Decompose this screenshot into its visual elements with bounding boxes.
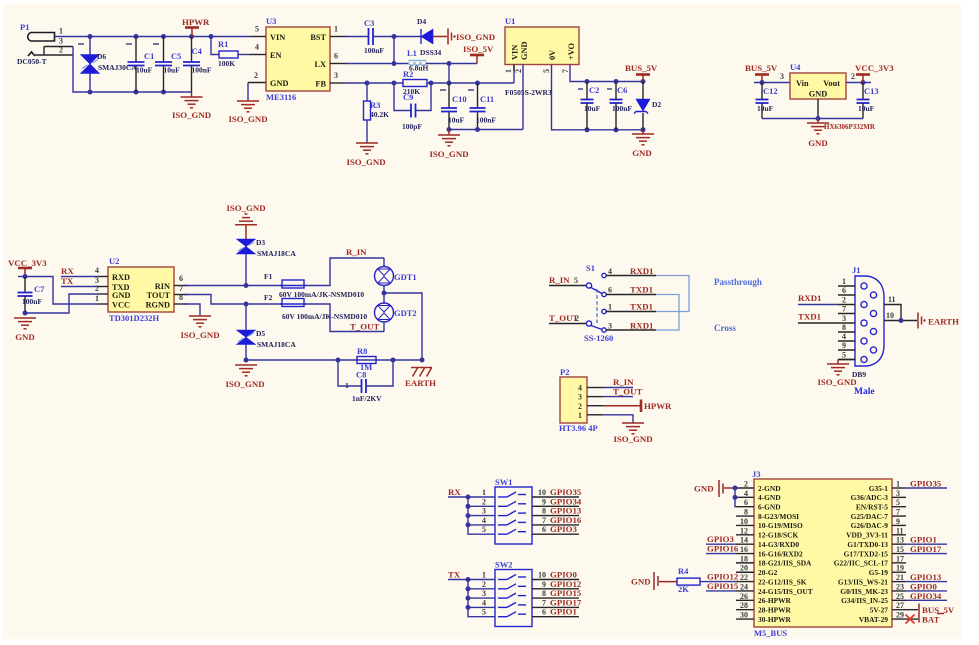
svg-text:6: 6 bbox=[842, 286, 846, 295]
pin 9 J3 bbox=[892, 517, 906, 526]
svg-text:T_OUT: T_OUT bbox=[613, 387, 642, 397]
wire EARTH row bbox=[246, 359, 422, 361]
svg-text:5: 5 bbox=[842, 351, 846, 360]
svg-text:F0505S-2WR3: F0505S-2WR3 bbox=[505, 88, 552, 97]
pin 10 J1 bbox=[884, 311, 917, 323]
svg-text:M5_BUS: M5_BUS bbox=[754, 628, 787, 638]
svg-text:VCC_3V3: VCC_3V3 bbox=[8, 258, 47, 268]
net GPIO3 pin14 bbox=[706, 534, 736, 544]
pin 4 SW1 bbox=[468, 524, 495, 526]
svg-text:C8: C8 bbox=[356, 370, 366, 380]
svg-text:HPWR: HPWR bbox=[644, 401, 672, 411]
svg-text:ISO_GND: ISO_GND bbox=[817, 377, 856, 387]
svg-text:9: 9 bbox=[542, 497, 546, 506]
ground ISO_GND under C4 bbox=[172, 92, 211, 120]
svg-text:24: 24 bbox=[740, 582, 748, 591]
capacitor C5 10uF bbox=[153, 37, 181, 93]
op-amp U1 F0505S-2WR3 DC-DC bbox=[505, 16, 579, 97]
svg-text:100nF: 100nF bbox=[476, 116, 496, 125]
svg-text:12: 12 bbox=[740, 526, 748, 535]
svg-text:2: 2 bbox=[95, 284, 99, 293]
pin 18 J3 bbox=[736, 562, 754, 564]
connector P2 HT3.96 4P bbox=[559, 367, 598, 433]
svg-text:EN: EN bbox=[270, 51, 282, 60]
capacitor C9 100pF bbox=[394, 83, 431, 131]
svg-text:7: 7 bbox=[179, 284, 183, 293]
svg-text:6: 6 bbox=[179, 274, 183, 283]
svg-text:D5: D5 bbox=[256, 329, 265, 338]
svg-text:T_OUT: T_OUT bbox=[350, 322, 379, 332]
op-amp U2 TD301D232H transceiver bbox=[108, 256, 174, 323]
svg-text:C10: C10 bbox=[452, 94, 467, 104]
svg-text:10: 10 bbox=[886, 311, 894, 320]
svg-text:RX: RX bbox=[448, 487, 461, 497]
pin 27 J3 bbox=[892, 601, 918, 610]
capacitor C12 10uF bbox=[756, 83, 778, 119]
resistor R8 1M bbox=[357, 346, 376, 372]
svg-text:C1: C1 bbox=[144, 51, 154, 61]
svg-text:VIN: VIN bbox=[511, 45, 520, 60]
gas discharge tube GDT1 bbox=[375, 258, 417, 293]
svg-text:4: 4 bbox=[95, 266, 99, 275]
svg-text:RGND: RGND bbox=[146, 301, 170, 310]
capacitor C7 100nF bbox=[18, 277, 46, 314]
pin 3 T_OUT bbox=[587, 387, 642, 397]
pin 9 SW1 net GPIO34 bbox=[532, 496, 582, 506]
svg-text:8: 8 bbox=[542, 589, 546, 598]
svg-text:U3: U3 bbox=[266, 16, 276, 26]
svg-text:G35-1: G35-1 bbox=[869, 484, 889, 493]
wire SW2 left bus bbox=[468, 580, 495, 617]
svg-text:Cross: Cross bbox=[714, 323, 736, 333]
pin 8 SW1 net GPIO13 bbox=[532, 506, 582, 516]
svg-text:Vin: Vin bbox=[796, 79, 809, 88]
svg-text:6: 6 bbox=[542, 608, 546, 617]
svg-text:8: 8 bbox=[842, 323, 846, 332]
svg-text:TXD1: TXD1 bbox=[630, 285, 653, 295]
svg-text:6: 6 bbox=[542, 525, 546, 534]
svg-text:30: 30 bbox=[740, 611, 748, 620]
svg-text:U4: U4 bbox=[790, 62, 801, 72]
pin 9 J1 bbox=[838, 349, 855, 351]
ground GND under U4 bbox=[807, 119, 876, 149]
power port EARTH at J1 bbox=[918, 313, 959, 329]
svg-text:60V 100mA/JK-NSMD010: 60V 100mA/JK-NSMD010 bbox=[279, 290, 364, 299]
svg-text:2-GND: 2-GND bbox=[758, 484, 781, 493]
svg-text:8: 8 bbox=[179, 293, 183, 302]
node RXD1 pin4 bbox=[606, 266, 656, 276]
node TXD1 pin6 bbox=[606, 285, 656, 295]
svg-text:2K: 2K bbox=[678, 584, 689, 594]
wire D4 to ISO_GND port bbox=[433, 36, 447, 38]
net GPIO12 pin22 bbox=[706, 572, 739, 582]
svg-text:5: 5 bbox=[482, 525, 486, 534]
pin 3 J3 bbox=[892, 489, 906, 498]
svg-text:26: 26 bbox=[740, 592, 748, 601]
pin 2 GND bbox=[98, 293, 108, 295]
pin 1 VCC bbox=[98, 303, 108, 305]
svg-text:EARTH: EARTH bbox=[405, 378, 436, 388]
wire U4 bottom bus bbox=[762, 118, 863, 120]
svg-text:13: 13 bbox=[896, 536, 904, 545]
svg-text:3: 3 bbox=[59, 37, 63, 46]
wire C3 to D4 bbox=[373, 36, 421, 38]
power ISO_5V bbox=[463, 44, 494, 64]
capacitor C6 100nF bbox=[607, 82, 632, 130]
capacitor C3 100nF bbox=[364, 18, 384, 55]
wire VCC_3V3 to VCC pin bbox=[18, 276, 25, 278]
svg-text:10uF: 10uF bbox=[136, 66, 153, 75]
svg-text:TD301D232H: TD301D232H bbox=[109, 313, 159, 323]
svg-text:VDD_3V3-11: VDD_3V3-11 bbox=[846, 531, 888, 540]
svg-text:SW2: SW2 bbox=[495, 560, 512, 570]
svg-text:BUS_5V: BUS_5V bbox=[625, 63, 658, 73]
pin 30 J3 bbox=[736, 618, 754, 620]
pin 3 TXD bbox=[98, 286, 108, 288]
svg-text:15: 15 bbox=[896, 545, 904, 554]
svg-text:SMAJ30CA: SMAJ30CA bbox=[98, 63, 137, 72]
svg-text:J1: J1 bbox=[852, 265, 861, 275]
svg-text:G17/TXD2-15: G17/TXD2-15 bbox=[844, 549, 889, 558]
svg-text:100nF: 100nF bbox=[364, 46, 384, 55]
svg-text:GDT2: GDT2 bbox=[394, 308, 417, 318]
power port GND at R4 bbox=[631, 572, 677, 590]
svg-text:G22/IIC_SCL-17: G22/IIC_SCL-17 bbox=[834, 559, 889, 568]
svg-text:2: 2 bbox=[842, 296, 846, 305]
ground ISO_GND under J1 bbox=[817, 364, 856, 387]
svg-text:GND: GND bbox=[270, 79, 288, 88]
pin 7 J1 bbox=[838, 313, 855, 315]
power VCC_3V3 bbox=[855, 63, 894, 83]
pin 28 J3 bbox=[736, 609, 754, 611]
pin 4 J3 bbox=[736, 496, 754, 498]
ground ISO_GND under U2 bbox=[180, 316, 219, 340]
svg-text:C3: C3 bbox=[364, 18, 374, 28]
wire J3 GND pins 2/4/6 bbox=[735, 488, 736, 507]
svg-text:R_IN: R_IN bbox=[346, 247, 367, 257]
pin 15 J3 bbox=[892, 544, 947, 554]
power VCC_3V3 at U2 bbox=[8, 258, 47, 277]
wire TOUT jog bbox=[184, 295, 282, 305]
svg-text:1: 1 bbox=[578, 411, 582, 420]
svg-text:SMAJ18CA: SMAJ18CA bbox=[257, 249, 296, 258]
pin 21 J3 bbox=[892, 572, 947, 582]
pin 19 J3 bbox=[892, 564, 906, 573]
capacitor C2 10uF bbox=[578, 82, 601, 130]
svg-text:1: 1 bbox=[504, 69, 513, 73]
pin 1 VIN U1 bbox=[513, 65, 515, 72]
pin 7 +VO U1 bbox=[570, 65, 643, 82]
net TX bbox=[61, 276, 98, 287]
svg-text:VCC_3V3: VCC_3V3 bbox=[855, 63, 894, 73]
fuse F2 bbox=[264, 293, 367, 321]
svg-text:ISO_GND: ISO_GND bbox=[456, 32, 495, 42]
pin 8 J1 bbox=[838, 331, 855, 333]
junction dots bottom bus bbox=[88, 90, 93, 95]
pin 3 J1 bbox=[838, 322, 855, 324]
ground ISO_GND under C10 bbox=[429, 130, 468, 160]
svg-text:4-GND: 4-GND bbox=[758, 493, 781, 502]
svg-text:R2: R2 bbox=[403, 69, 413, 79]
svg-text:14-G3/RXD0: 14-G3/RXD0 bbox=[758, 540, 799, 549]
pin 10 SW1 net GPIO35 bbox=[532, 487, 582, 497]
svg-text:C9: C9 bbox=[403, 92, 413, 102]
pin 1 J3 bbox=[892, 479, 947, 489]
pin 3 SW1 bbox=[468, 515, 495, 517]
svg-text:1: 1 bbox=[842, 277, 846, 286]
svg-text:ISO_GND: ISO_GND bbox=[225, 379, 264, 389]
pin 2 SW1 bbox=[468, 505, 495, 507]
wire C7 bottom to GND pin bbox=[25, 294, 98, 313]
pin 8 J3 bbox=[736, 515, 754, 517]
svg-text:8: 8 bbox=[744, 508, 748, 517]
svg-text:27: 27 bbox=[896, 601, 904, 610]
svg-text:23: 23 bbox=[896, 582, 904, 591]
svg-text:G5-19: G5-19 bbox=[869, 568, 889, 577]
pin 1 ISO_GND bbox=[587, 415, 653, 444]
pin 1 J1 bbox=[838, 285, 855, 287]
pin 11 J1 bbox=[884, 295, 901, 321]
svg-text:10: 10 bbox=[538, 488, 546, 497]
svg-text:GPIO34: GPIO34 bbox=[910, 591, 942, 601]
svg-text:10uF: 10uF bbox=[584, 104, 601, 113]
wire BUS_5V to U4 Vin bbox=[754, 82, 790, 84]
wire C3 down to LX node bbox=[393, 37, 395, 64]
wire SW1 left bus bbox=[468, 497, 495, 534]
svg-text:DSS34: DSS34 bbox=[420, 48, 442, 57]
svg-text:HX6306P332MR: HX6306P332MR bbox=[824, 123, 876, 131]
svg-text:R_IN: R_IN bbox=[549, 275, 570, 285]
svg-text:2: 2 bbox=[575, 314, 579, 323]
svg-text:1nF/2KV: 1nF/2KV bbox=[352, 394, 382, 403]
pin 16 J3 bbox=[736, 553, 754, 555]
svg-text:5: 5 bbox=[896, 498, 900, 507]
pin 8 RGND bbox=[174, 303, 188, 305]
svg-text:R8: R8 bbox=[357, 346, 367, 356]
pin 9 SW2 net GPIO12 bbox=[532, 579, 582, 589]
wire GDT mid to EARTH bbox=[384, 293, 422, 360]
diode D4 DSS34 bbox=[417, 17, 442, 57]
switch S1 SS-1260 bbox=[549, 263, 613, 343]
inductor L1 6.8uH bbox=[407, 48, 429, 73]
switch SW1 bbox=[495, 477, 532, 544]
pin 29 J3 bbox=[892, 611, 918, 624]
capacitor C11 100nF bbox=[468, 83, 496, 130]
svg-text:GPIO1: GPIO1 bbox=[550, 607, 577, 617]
svg-text:1: 1 bbox=[482, 571, 486, 580]
wire LX to L1 bbox=[346, 63, 409, 65]
svg-text:4: 4 bbox=[578, 384, 582, 393]
switch SW2 bbox=[495, 560, 532, 627]
svg-text:5: 5 bbox=[574, 276, 578, 285]
wire L1 to ISO_5V node bbox=[426, 63, 477, 65]
node RXD1 pin3 bbox=[606, 321, 656, 331]
svg-text:G36/ADC-3: G36/ADC-3 bbox=[851, 493, 889, 502]
svg-text:3: 3 bbox=[896, 489, 900, 498]
svg-text:1: 1 bbox=[608, 303, 612, 312]
svg-text:C2: C2 bbox=[589, 85, 599, 95]
svg-text:VCC: VCC bbox=[112, 301, 130, 310]
power BUS_5V at J3 bbox=[919, 604, 955, 623]
svg-text:ISO_GND: ISO_GND bbox=[226, 203, 265, 213]
capacitor C1 10uF bbox=[126, 37, 154, 93]
svg-text:G25/DAC-7: G25/DAC-7 bbox=[851, 512, 889, 521]
svg-text:19: 19 bbox=[896, 564, 904, 573]
pin 8 SW2 net GPIO15 bbox=[532, 588, 582, 598]
op-amp U4 HX6306P332MR LDO bbox=[790, 62, 846, 99]
svg-text:R3: R3 bbox=[370, 100, 380, 110]
svg-text:ISO_GND: ISO_GND bbox=[180, 330, 219, 340]
pin 6 RIN bbox=[174, 285, 188, 287]
svg-text:GND: GND bbox=[808, 138, 828, 148]
svg-text:1: 1 bbox=[345, 381, 349, 390]
svg-text:2: 2 bbox=[578, 402, 582, 411]
svg-text:U2: U2 bbox=[109, 256, 119, 266]
svg-text:17: 17 bbox=[896, 554, 904, 563]
svg-text:SMAJ18CA: SMAJ18CA bbox=[257, 340, 296, 349]
svg-text:2: 2 bbox=[744, 480, 748, 489]
svg-text:10uF: 10uF bbox=[858, 104, 875, 113]
svg-text:100nF: 100nF bbox=[22, 297, 42, 306]
svg-text:16-G16/RXD2: 16-G16/RXD2 bbox=[758, 549, 803, 558]
pin 25 J3 bbox=[892, 591, 947, 601]
svg-text:5: 5 bbox=[542, 69, 551, 73]
svg-text:ISO_GND: ISO_GND bbox=[613, 434, 652, 444]
svg-text:1: 1 bbox=[334, 25, 338, 34]
svg-text:C5: C5 bbox=[171, 51, 181, 61]
pin 3 SW2 bbox=[468, 597, 495, 599]
connector P1 DC050-T bbox=[17, 22, 73, 66]
svg-text:22: 22 bbox=[740, 573, 748, 582]
svg-text:100nF: 100nF bbox=[192, 66, 212, 75]
pin 11 J3 bbox=[892, 526, 906, 535]
resistor R3 40.2K bbox=[364, 83, 390, 143]
pin 3 FB bbox=[330, 82, 346, 84]
wire U4 Vout to VCC_3V3 bbox=[846, 82, 871, 84]
ground ISO_GND under U3 bbox=[228, 83, 267, 125]
svg-text:14: 14 bbox=[740, 536, 748, 545]
svg-text:GPIO15: GPIO15 bbox=[707, 581, 739, 591]
svg-text:F2: F2 bbox=[264, 293, 273, 302]
svg-text:1: 1 bbox=[896, 480, 900, 489]
pin 4 RXD bbox=[98, 276, 108, 278]
svg-text:2: 2 bbox=[254, 71, 258, 80]
svg-text:9: 9 bbox=[896, 517, 900, 526]
svg-text:RIN: RIN bbox=[155, 282, 170, 291]
svg-text:3: 3 bbox=[780, 72, 784, 81]
svg-text:10uF: 10uF bbox=[757, 104, 774, 113]
svg-text:SW1: SW1 bbox=[495, 477, 512, 487]
svg-text:TOUT: TOUT bbox=[147, 291, 171, 300]
pin 10 J3 bbox=[736, 524, 754, 526]
svg-text:7: 7 bbox=[896, 508, 900, 517]
svg-text:20-G2: 20-G2 bbox=[758, 568, 778, 577]
pin 12 J3 bbox=[736, 534, 754, 536]
svg-text:G26/DAC-9: G26/DAC-9 bbox=[851, 521, 889, 530]
pin 1 SW2 bbox=[468, 579, 495, 581]
svg-text:6: 6 bbox=[608, 286, 612, 295]
svg-text:1: 1 bbox=[59, 27, 63, 36]
svg-text:100K: 100K bbox=[218, 59, 235, 68]
capacitor C13 10uF bbox=[857, 83, 879, 119]
pin 7 TOUT bbox=[174, 294, 188, 296]
svg-text:2: 2 bbox=[514, 69, 523, 73]
svg-text:4: 4 bbox=[255, 43, 259, 52]
svg-text:FB: FB bbox=[315, 80, 326, 89]
svg-text:J3: J3 bbox=[752, 469, 761, 479]
svg-text:Vout: Vout bbox=[823, 79, 840, 88]
svg-text:D2: D2 bbox=[652, 100, 661, 109]
svg-text:BAT: BAT bbox=[922, 615, 940, 625]
svg-text:2: 2 bbox=[851, 72, 855, 81]
svg-text:2: 2 bbox=[482, 497, 486, 506]
pin 10 SW2 net GPIO0 bbox=[532, 570, 579, 580]
svg-text:GND: GND bbox=[694, 484, 714, 494]
net RXD1 to J1 pin2 bbox=[798, 293, 838, 305]
svg-text:25: 25 bbox=[896, 592, 904, 601]
svg-text:G13/IIS_WS-21: G13/IIS_WS-21 bbox=[838, 577, 888, 586]
svg-text:10uF: 10uF bbox=[164, 66, 181, 75]
svg-text:D6: D6 bbox=[97, 52, 106, 61]
svg-text:21: 21 bbox=[896, 573, 904, 582]
svg-text:8: 8 bbox=[542, 507, 546, 516]
svg-text:10: 10 bbox=[740, 517, 748, 526]
svg-text:ISO_5V: ISO_5V bbox=[463, 44, 494, 54]
connector J1 DB9 bbox=[852, 265, 884, 397]
svg-text:GDT1: GDT1 bbox=[394, 272, 417, 282]
svg-text:ISO_GND: ISO_GND bbox=[228, 114, 267, 124]
svg-text:HPWR: HPWR bbox=[182, 17, 210, 27]
pin 6 LX bbox=[330, 63, 346, 65]
wire ISO_GND bus under C10/C11 bbox=[449, 129, 523, 131]
svg-text:6: 6 bbox=[744, 498, 748, 507]
net TXD1 to J1 pin3 bbox=[798, 312, 838, 324]
svg-text:40.2K: 40.2K bbox=[370, 110, 389, 119]
svg-text:4: 4 bbox=[482, 598, 486, 607]
svg-text:2: 2 bbox=[482, 580, 486, 589]
svg-text:3: 3 bbox=[608, 322, 612, 331]
net GPIO16 pin16 bbox=[706, 544, 739, 554]
svg-text:10uF: 10uF bbox=[448, 116, 465, 125]
pin 2 HPWR bbox=[587, 400, 672, 413]
wire J1 pin5 to ISO_GND bbox=[838, 359, 855, 361]
svg-text:4: 4 bbox=[842, 332, 846, 341]
svg-text:R4: R4 bbox=[678, 566, 689, 576]
svg-text:G0/IIS_MK-23: G0/IIS_MK-23 bbox=[840, 587, 888, 596]
svg-text:4: 4 bbox=[744, 489, 748, 498]
svg-text:GPIO3: GPIO3 bbox=[550, 524, 577, 534]
svg-text:RXD1: RXD1 bbox=[630, 321, 653, 331]
svg-text:RX: RX bbox=[61, 266, 74, 276]
TVS diode D6 SMAJ30CA bbox=[78, 37, 137, 93]
svg-text:C13: C13 bbox=[864, 86, 879, 96]
wire ISO_5V node down to output row bbox=[448, 64, 450, 84]
pin 4 R_IN bbox=[587, 377, 634, 388]
svg-text:ME3116: ME3116 bbox=[266, 92, 296, 102]
svg-text:BUS_5V: BUS_5V bbox=[745, 63, 778, 73]
pin 13 J3 bbox=[892, 535, 947, 545]
pin 1 SW1 bbox=[468, 496, 495, 498]
svg-text:GPIO17: GPIO17 bbox=[910, 544, 942, 554]
wire F2 to T_OUT row bbox=[304, 304, 384, 332]
svg-text:6-GND: 6-GND bbox=[758, 503, 781, 512]
pin 2 GND U1 bbox=[522, 65, 524, 130]
capacitor C4 100nF bbox=[183, 37, 212, 93]
pin 7 J3 bbox=[892, 508, 906, 517]
svg-text:18: 18 bbox=[740, 554, 748, 563]
capacitor C8 1nF/2KV bbox=[338, 360, 393, 403]
pin 2 J1 bbox=[838, 304, 855, 306]
